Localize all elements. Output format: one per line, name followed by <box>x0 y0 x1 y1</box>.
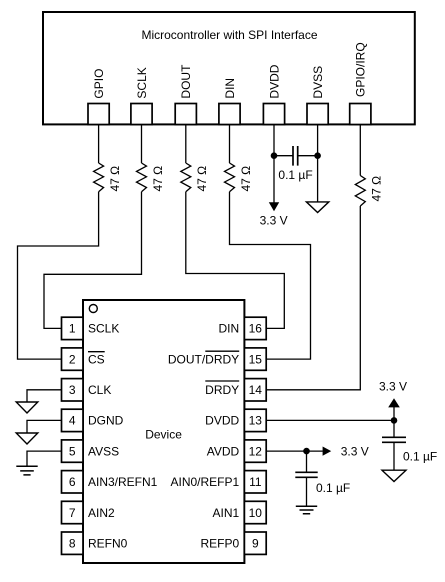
device pin 8 <box>62 532 128 554</box>
svg-text:14: 14 <box>249 383 263 397</box>
svg-text:DIN: DIN <box>219 322 240 336</box>
svg-text:REFN0: REFN0 <box>88 537 128 551</box>
svg-text:DOUT: DOUT <box>179 64 193 99</box>
svg-text:8: 8 <box>69 537 76 551</box>
device pin 6 <box>62 471 158 493</box>
svg-text:3.3 V: 3.3 V <box>341 444 369 458</box>
device pin 14 <box>205 379 266 401</box>
svg-text:0.1 µF: 0.1 µF <box>316 481 350 495</box>
wire CLK pin 3 to ground <box>27 390 62 402</box>
ground (CLK, open triangle) <box>16 402 38 413</box>
node DVDD rail junction <box>391 417 398 424</box>
svg-text:REFP0: REFP0 <box>201 537 240 551</box>
svg-text:2: 2 <box>69 352 76 366</box>
svg-text:3: 3 <box>69 383 76 397</box>
wire DIN net: resistor to device pin 15 DOUT/DRDY <box>230 192 311 359</box>
power 3.3 V supply arrow (pin 13 rail) <box>379 379 407 420</box>
svg-text:16: 16 <box>249 322 263 336</box>
power 3.3 V supply arrow (AVDD) <box>323 444 369 458</box>
MCU pin DOUT terminal <box>175 64 196 125</box>
svg-text:12: 12 <box>249 444 263 458</box>
device pin 5 <box>62 440 120 462</box>
wire DIN net: MCU DIN to resistor <box>229 125 231 164</box>
svg-text:9: 9 <box>252 537 259 551</box>
svg-text:15: 15 <box>249 352 263 366</box>
svg-text:0.1 µF: 0.1 µF <box>403 449 437 463</box>
svg-text:47 Ω: 47 Ω <box>239 166 253 192</box>
resistor R (SCLK) 47 ohm <box>137 163 165 192</box>
wire AVSS pin 5 to ground <box>27 451 62 466</box>
svg-text:3.3 V: 3.3 V <box>379 379 407 393</box>
svg-text:AIN3/REFN1: AIN3/REFN1 <box>88 475 158 489</box>
resistor R (DIN) 47 ohm <box>225 163 253 192</box>
wire DVDD pin 13 to supply rail <box>266 419 394 421</box>
svg-text:DGND: DGND <box>88 414 124 428</box>
wire GPIO net: resistor to device pin 2 CS <box>18 192 99 359</box>
resistor R (DOUT) 47 ohm <box>181 163 209 192</box>
svg-text:47 Ω: 47 Ω <box>370 176 384 202</box>
wire DOUT net: MCU DOUT to resistor <box>185 125 187 164</box>
device pin 11 <box>170 471 266 493</box>
device pin 16 <box>219 317 267 339</box>
svg-text:7: 7 <box>69 506 76 520</box>
wire DVDD net: MCU DVDD down to junction <box>274 125 293 156</box>
ground (pin 13 rail, open triangle) <box>382 470 406 481</box>
svg-text:AVDD: AVDD <box>207 444 240 458</box>
svg-text:DVDD: DVDD <box>205 414 239 428</box>
svg-text:13: 13 <box>249 414 263 428</box>
wire GPIO net: MCU GPIO to resistor <box>98 125 100 164</box>
MCU pin DVDD terminal <box>263 64 284 124</box>
svg-text:Device: Device <box>145 427 182 441</box>
wire GPIO/IRQ net: resistor to device pin 14 DRDY <box>266 206 360 390</box>
MCU pin SCLK terminal <box>131 67 152 124</box>
wire GPIO/IRQ net: MCU GPIO/IRQ to resistor <box>359 125 361 176</box>
wire DOUT net: resistor to device pin 16 DIN <box>186 192 284 329</box>
svg-text:CLK: CLK <box>88 383 111 397</box>
svg-text:1: 1 <box>69 322 76 336</box>
svg-text:AIN2: AIN2 <box>88 506 115 520</box>
MCU pin DVSS terminal <box>307 66 328 125</box>
node DVSS junction <box>314 152 321 159</box>
ground (AVSS, earth symbol) <box>16 466 37 475</box>
wire capacitor to ground (AVDD) <box>306 477 308 506</box>
svg-text:0.1 µF: 0.1 µF <box>278 168 312 182</box>
svg-text:47 Ω: 47 Ω <box>195 166 209 192</box>
MCU pin GPIO/IRQ terminal <box>350 42 371 124</box>
svg-text:DVDD: DVDD <box>267 64 281 98</box>
svg-text:AVSS: AVSS <box>88 444 119 458</box>
device pin 3 <box>62 379 112 401</box>
ground (AVDD, earth symbol) <box>296 506 317 514</box>
resistor R (GPIO/IRQ) 47 ohm <box>355 176 383 207</box>
device pin 9 <box>201 532 267 554</box>
microcontroller box <box>43 12 415 124</box>
device pin 12 <box>207 440 266 462</box>
svg-text:47 Ω: 47 Ω <box>151 166 165 192</box>
device pin 4 <box>62 409 124 431</box>
svg-text:CS: CS <box>88 352 105 366</box>
power 3.3 V supply arrow (DVDD) <box>260 156 288 228</box>
device pin-1 indicator circle <box>89 305 97 313</box>
device pin 2 <box>62 348 105 370</box>
svg-text:4: 4 <box>69 414 76 428</box>
svg-text:47 Ω: 47 Ω <box>108 166 122 192</box>
ground (DVSS, open triangle) <box>306 202 328 213</box>
ground (DGND, open triangle) <box>16 433 38 444</box>
wire capacitor to ground (pin 13 rail) <box>393 442 395 470</box>
capacitor C (AVDD bypass) 0.1 uF <box>295 451 350 495</box>
svg-text:3.3 V: 3.3 V <box>260 213 288 227</box>
svg-text:Microcontroller with SPI Inter: Microcontroller with SPI Interface <box>141 28 317 42</box>
svg-text:5: 5 <box>69 444 76 458</box>
svg-text:GPIO: GPIO <box>92 69 106 99</box>
node AVDD junction <box>303 448 310 455</box>
capacitor C (AVDD rail bypass) 0.1 uF <box>382 420 437 463</box>
svg-text:AIN1: AIN1 <box>213 506 240 520</box>
device pin 1 <box>62 317 120 339</box>
svg-text:GPIO/IRQ: GPIO/IRQ <box>354 42 368 97</box>
wire SCLK net: MCU SCLK to resistor <box>141 125 143 164</box>
node DVDD junction <box>271 152 278 159</box>
MCU pin GPIO terminal <box>88 69 109 125</box>
device pin 13 <box>205 409 266 431</box>
svg-text:DRDY: DRDY <box>205 383 239 397</box>
wire DVSS net: MCU DVSS down to ground <box>317 125 319 202</box>
svg-text:AIN0/REFP1: AIN0/REFP1 <box>170 475 239 489</box>
svg-text:DVSS: DVSS <box>311 66 325 99</box>
device box <box>83 300 244 563</box>
svg-text:6: 6 <box>69 475 76 489</box>
wire DVSS net: capacitor to DVSS <box>298 155 318 157</box>
device pin 7 <box>62 501 116 523</box>
resistor R (GPIO) 47 ohm <box>94 163 122 192</box>
wire AVDD pin 12 to supply arrow <box>266 450 323 452</box>
device pin 15 <box>168 348 266 370</box>
svg-text:11: 11 <box>249 475 262 489</box>
wire DGND pin 4 to ground <box>27 420 62 433</box>
svg-text:10: 10 <box>249 506 263 520</box>
svg-text:DOUT/DRDY: DOUT/DRDY <box>168 352 239 366</box>
svg-text:DIN: DIN <box>223 78 237 99</box>
svg-text:SCLK: SCLK <box>135 67 149 98</box>
svg-text:SCLK: SCLK <box>88 322 119 336</box>
device pin 10 <box>213 501 267 523</box>
MCU pin DIN terminal <box>219 78 240 125</box>
wire SCLK net: resistor to device pin 1 SCLK <box>44 192 142 329</box>
capacitor C (DVDD bypass) 0.1 uF <box>278 146 312 182</box>
